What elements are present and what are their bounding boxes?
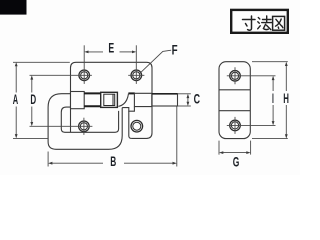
plain hole bottom-right bbox=[131, 120, 143, 132]
dimension H bbox=[252, 62, 288, 139]
dimension B bbox=[48, 107, 177, 167]
kanji 図 bbox=[273, 16, 285, 30]
title box 寸法図 bbox=[231, 10, 288, 33]
bolt guide block bbox=[134, 93, 151, 106]
dimension D bbox=[31, 78, 33, 125]
svg-text:H: H bbox=[283, 91, 289, 106]
kanji 法 bbox=[258, 16, 272, 30]
keeper hole top bbox=[227, 67, 276, 84]
svg-text:E: E bbox=[108, 41, 114, 56]
dimension A bbox=[13, 62, 70, 138]
label F with leader bbox=[140, 50, 172, 73]
svg-text:A: A bbox=[13, 92, 19, 107]
housing box bbox=[71, 92, 85, 109]
black corner rectangle bbox=[0, 0, 27, 15]
slot stepped top edge bbox=[122, 107, 134, 112]
screw hole top-right bbox=[128, 45, 144, 84]
loop handle outer bbox=[48, 94, 122, 150]
plate outline bbox=[71, 62, 153, 138]
dimension C bbox=[178, 94, 191, 106]
fillet arc bbox=[118, 94, 128, 107]
svg-text:F: F bbox=[172, 43, 178, 58]
svg-text:B: B bbox=[110, 154, 116, 169]
svg-text:I: I bbox=[272, 91, 274, 106]
pin (bolt) bbox=[152, 94, 178, 106]
knob bbox=[101, 92, 118, 107]
keeper plate outline bbox=[219, 62, 250, 139]
svg-text:G: G bbox=[233, 154, 240, 169]
screw hole bottom-left bbox=[30, 118, 93, 135]
cross lines bbox=[219, 89, 250, 91]
dimension G bbox=[219, 141, 251, 155]
svg-text:D: D bbox=[30, 92, 36, 107]
kanji 寸 bbox=[243, 16, 256, 30]
loop handle inner opening bbox=[61, 107, 118, 132]
keeper hole bottom bbox=[227, 117, 276, 134]
dimension I bbox=[272, 78, 274, 123]
dimension E bbox=[86, 51, 134, 53]
slider thick bars bbox=[84, 93, 135, 106]
svg-text:C: C bbox=[194, 91, 201, 106]
screw hole top-left bbox=[30, 45, 92, 84]
bracket left edge bbox=[129, 111, 132, 138]
